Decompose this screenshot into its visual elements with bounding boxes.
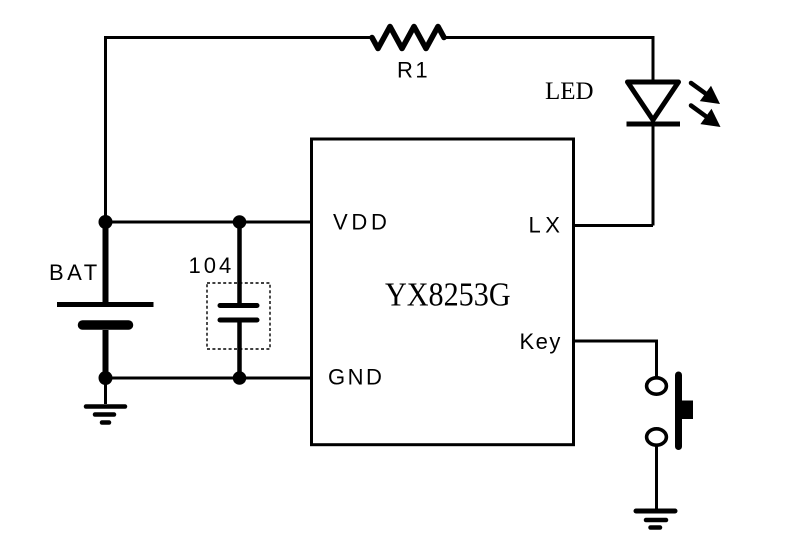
- svg-text:R1: R1: [397, 58, 430, 83]
- svg-text:BAT: BAT: [49, 260, 101, 285]
- svg-text:LX: LX: [529, 213, 565, 238]
- svg-text:Key: Key: [520, 329, 562, 354]
- svg-text:YX8253G: YX8253G: [385, 276, 511, 313]
- svg-text:104: 104: [189, 253, 235, 278]
- svg-text:GND: GND: [328, 365, 384, 390]
- svg-text:LED: LED: [545, 78, 594, 105]
- svg-text:VDD: VDD: [333, 210, 391, 235]
